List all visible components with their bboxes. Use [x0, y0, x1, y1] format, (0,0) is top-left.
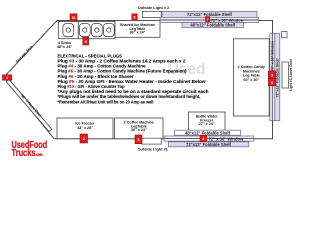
svg-text:36" x 24": 36" x 24" — [130, 31, 146, 35]
sink cabinet 1 — [58, 22, 78, 39]
svg-text:48"x12" Foldable Shelf: 48"x12" Foldable Shelf — [190, 23, 236, 28]
svg-text:5: 5 — [271, 74, 273, 78]
svg-text:*Remember A/C/Heat Unit will b: *Remember A/C/Heat Unit will be on 20 Am… — [58, 99, 154, 104]
top foldable shelf 72x12 — [162, 11, 257, 17]
svg-text:72"x12" Foldable Shelf: 72"x12" Foldable Shelf — [187, 12, 233, 17]
sink basin 2 — [79, 24, 90, 37]
plug tag 3 — [135, 135, 142, 144]
sink basin 1 — [63, 24, 74, 37]
v-nose door (double line) — [6, 79, 52, 131]
right window 72x36 (rotated) — [270, 34, 275, 121]
svg-text:8: 8 — [134, 16, 136, 20]
bottom window 72x36 — [164, 136, 254, 141]
wire: v-nose upper diagonal — [4, 21, 57, 78]
svg-text:Light #3 Above Door: Light #3 Above Door — [289, 58, 293, 91]
svg-text:72" x 36" Window: 72" x 36" Window — [271, 41, 275, 71]
svg-text:60" x 30": 60" x 30" — [243, 78, 259, 82]
svg-text:48"x12" Foldable Shelf: 48"x12" Foldable Shelf — [185, 130, 231, 135]
electrical notes text block — [58, 53, 209, 104]
svg-text:27" x 24": 27" x 24" — [199, 122, 215, 126]
top inside foldable shelf 48x12 — [182, 23, 244, 28]
svg-text:Outside Light #1: Outside Light #1 — [137, 147, 168, 152]
sink cabinet 2 — [78, 22, 115, 39]
plug tag 10 — [70, 14, 77, 21]
wire: v-nose lower diagonal — [4, 77, 54, 139]
outside light #2 fixture — [143, 11, 162, 17]
plug tag 1 — [3, 75, 12, 80]
svg-text:48"x 24": 48"x 24" — [57, 45, 72, 49]
svg-text:10: 10 — [72, 16, 76, 20]
outside light #1 fixture — [142, 138, 162, 144]
plug tag 4 — [200, 135, 207, 142]
bottom inside foldable shelf 48x12 — [175, 130, 241, 135]
plug tag 6 — [268, 78, 275, 85]
ice freezer — [57, 118, 113, 139]
svg-text:7: 7 — [207, 18, 209, 22]
plug tag 8 — [132, 14, 138, 20]
svg-text:36" V-Nose Door: 36" V-Nose Door — [20, 94, 43, 119]
plug tag 7 — [206, 17, 210, 22]
vent box at top of right bars — [282, 32, 288, 38]
sink basin 3 — [91, 24, 102, 37]
top window 72x36 — [160, 17, 259, 22]
logo UsedFoodTrucks.com — [12, 140, 48, 159]
wire: right wall — [272, 20, 274, 139]
wire: top wall — [57, 20, 273, 22]
shaved ice machine table — [115, 21, 160, 38]
svg-text:72"x12" Foldable Shelf: 72"x12" Foldable Shelf — [186, 142, 232, 147]
wire: bottom wall — [54, 138, 273, 140]
svg-text:9: 9 — [85, 40, 87, 44]
outside light #3 fixture — [282, 62, 289, 88]
plug tag 9 — [83, 37, 89, 45]
svg-text:72" x 36" Window: 72" x 36" Window — [209, 136, 245, 141]
svg-text:36" x 24": 36" x 24" — [131, 128, 147, 132]
sink basin 4 — [103, 24, 114, 37]
cotton candy leg table — [233, 39, 269, 116]
plug tag 2 — [80, 134, 88, 143]
svg-text:6: 6 — [271, 81, 273, 85]
right foldable shelf 72x12 (rotated) — [275, 34, 280, 121]
coffee machine leg table — [115, 118, 163, 139]
svg-text:Outside Light # 2: Outside Light # 2 — [138, 5, 170, 10]
bottom outside foldable shelf 72x12 — [168, 142, 249, 147]
svg-text:43" x 28": 43" x 28" — [77, 126, 93, 130]
svg-text:1: 1 — [6, 76, 8, 80]
bottle water freezer — [188, 112, 225, 133]
svg-text:Storage Area: Storage Area — [15, 44, 34, 64]
plug tag 5 — [268, 71, 275, 78]
